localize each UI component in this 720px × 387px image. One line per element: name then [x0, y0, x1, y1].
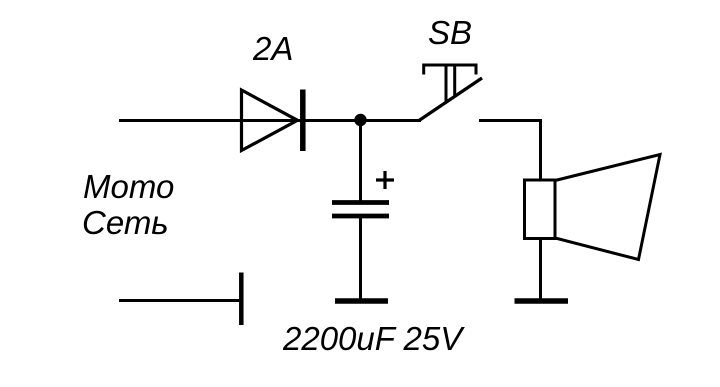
svg-text:2A: 2A: [252, 30, 293, 67]
wire: capacitor bottom plate to ground: [359, 216, 362, 299]
speaker LS driver rectangle: [525, 180, 556, 239]
diode VD1 cathode bar: [300, 90, 306, 152]
wire: vertical drop from corner to speaker terminal: [539, 119, 542, 180]
capacitor C1 polarity plus sign horizontal stroke: [376, 178, 394, 181]
switch SB button cap bracket: [424, 65, 476, 75]
svg-text:2200uF 25V: 2200uF 25V: [282, 320, 465, 357]
ground bar under speaker: [515, 298, 569, 304]
capacitor C1 top plate: [332, 200, 389, 205]
diode VD1 triangle: [242, 90, 298, 151]
switch SB plunger left stem: [445, 65, 448, 102]
svg-text:Сеть: Сеть: [82, 204, 169, 241]
node junction dot: [354, 114, 366, 126]
wire: capacitor branch from junction down to top plate: [359, 120, 362, 201]
ground bar under capacitor: [335, 298, 388, 304]
switch SB plunger right stem: [453, 65, 456, 97]
wire: switch right contact to speaker branch corner: [479, 119, 542, 122]
speaker LS horn: [555, 155, 660, 260]
capacitor C1 polarity plus sign vertical stroke: [383, 171, 386, 189]
svg-text:SB: SB: [428, 14, 472, 51]
wire: mains input segment from Мото Сеть to diode anode: [119, 119, 303, 122]
terminal bar at end of return lead: [239, 273, 244, 326]
svg-text:Мото: Мото: [83, 168, 174, 205]
wire: lower return lead from Мото Сеть: [119, 299, 239, 302]
switch SB lever arm: [419, 78, 482, 121]
capacitor C1 bottom plate: [332, 214, 389, 219]
wire: speaker bottom terminal to ground: [539, 239, 542, 300]
wire: diode cathode to junction node and switch left contact: [303, 119, 421, 122]
